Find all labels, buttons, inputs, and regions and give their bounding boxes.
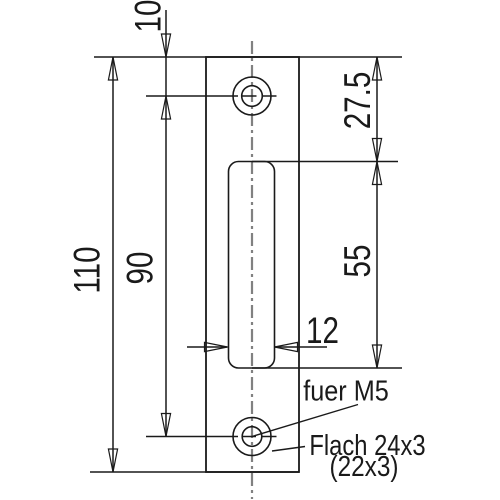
svg-text:27.5: 27.5 [338,72,379,130]
svg-text:12: 12 [306,311,339,352]
svg-text:fuer M5: fuer M5 [303,374,389,407]
svg-text:10: 10 [128,0,169,32]
svg-text:110: 110 [68,246,109,293]
svg-text:55: 55 [338,245,379,278]
svg-text:90: 90 [120,252,161,285]
svg-text:(22x3): (22x3) [329,450,398,482]
